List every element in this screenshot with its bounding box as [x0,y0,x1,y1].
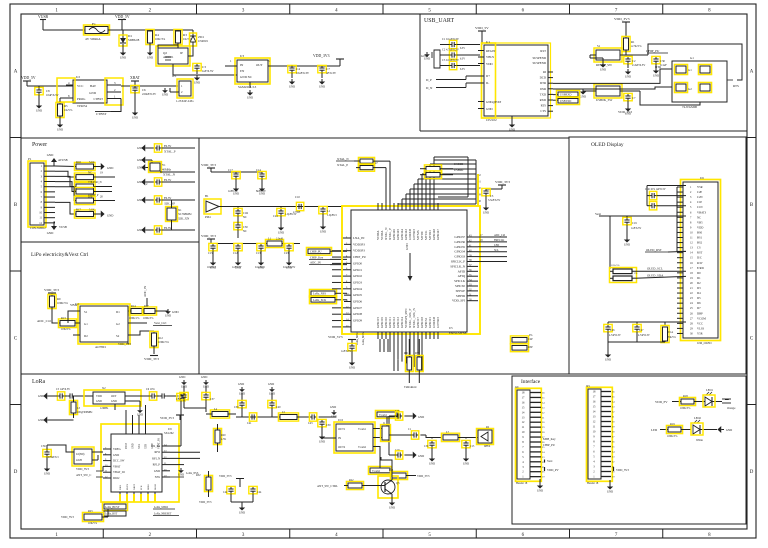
svg-text:GND: GND [107,214,113,218]
svg-text:F1: F1 [92,22,96,26]
svg-text:BS2: BS2 [697,241,703,245]
svg-text:LoRa_NRESET: LoRa_NRESET [154,513,172,516]
svg-text:GND: GND [137,412,143,416]
svg-text:VDD: VDD [697,225,703,229]
svg-text:RFI_P: RFI_P [153,463,161,467]
svg-text:GND: GND [429,461,435,465]
svg-text:VDD_5V: VDD_5V [21,76,36,80]
svg-text:XTAL_N: XTAL_N [337,157,349,161]
svg-text:U6: U6 [700,176,704,180]
svg-text:Vext: Vext [595,212,601,216]
svg-text:VDD_3V3: VDD_3V3 [495,180,510,184]
svg-text:VDD: VDD [486,62,493,66]
svg-text:100@300MHz: 100@300MHz [77,411,93,414]
svg-text:F6.3V: F6.3V [164,178,172,182]
svg-text:C6 10%: C6 10% [146,388,156,391]
svg-text:VBAT3: VBAT3 [697,210,707,214]
svg-text:GND: GND [509,127,515,131]
svg-text:GND: GND [483,210,489,214]
svg-text:C1 0.1uF/6.3V: C1 0.1uF/6.3V [442,37,460,41]
svg-text:LoRa_MOSI: LoRa_MOSI [362,331,365,345]
svg-text:U0TXD: U0TXD [436,317,440,328]
svg-text:NC: NC [243,215,247,219]
svg-text:G1: G1 [84,322,88,326]
svg-text:E/RD: E/RD [697,266,704,270]
svg-text:LoRa_SCK: LoRa_SCK [313,298,327,302]
svg-text:LoRa_BUSY: LoRa_BUSY [105,506,120,509]
svg-text:R33: R33 [415,352,420,355]
svg-text:S2: S2 [116,334,120,338]
svg-text:B1: B1 [205,194,209,198]
svg-text:VDD_3V3: VDD_3V3 [201,234,216,238]
svg-text:GPIO1: GPIO1 [353,268,362,272]
svg-text:L6(ND): L6(ND) [76,453,84,456]
svg-text:ADC_IN: ADC_IN [143,285,147,297]
svg-text:R/W: R/W [697,261,703,265]
svg-text:VDD_3V3: VDD_3V3 [199,500,212,504]
svg-text:GPIO4: GPIO4 [353,287,362,291]
svg-text:GPIO9: GPIO9 [353,319,362,323]
svg-text:GPIO34: GPIO34 [454,250,465,254]
svg-text:MISO: MISO [147,484,150,490]
svg-text:GND: GND [537,488,543,492]
svg-text:8nF6.3V: 8nF6.3V [256,189,267,193]
svg-text:D2: D2 [84,334,88,338]
svg-text:R18: R18 [683,394,688,398]
svg-text:GND: GND [624,242,630,246]
svg-text:GND: GND [154,469,160,473]
svg-text:10uF/6.3V: 10uF/6.3V [46,93,60,97]
svg-text:VDD_3V3: VDD_3V3 [201,163,216,167]
svg-text:XTB: XTB [145,444,148,449]
svg-text:GND: GND [194,80,200,84]
svg-text:Q3: Q3 [396,481,400,485]
svg-text:LoRa_NSS: LoRa_NSS [313,292,326,296]
svg-text:VCC: VCC [697,321,703,325]
svg-text:GND: GND [151,443,154,449]
svg-text:VDD3P3: VDD3P3 [353,242,365,246]
svg-text:GND: GND [113,453,119,457]
svg-text:VBUS: VBUS [486,55,494,59]
svg-text:U2: U2 [76,75,80,79]
svg-text:LoRa_RST: LoRa_RST [105,513,118,516]
svg-text:R13: R13 [61,316,66,320]
svg-text:SGM2212-3.3: SGM2212-3.3 [238,85,257,89]
svg-text:VREG: VREG [113,447,121,451]
svg-text:GND: GND [44,471,50,475]
svg-text:D3: D3 [697,286,701,290]
svg-text:GPIO8: GPIO8 [353,312,362,316]
svg-text:10K/5%: 10K/5% [61,327,71,331]
svg-text:5.1K: 5.1K [89,160,96,164]
svg-text:C10: C10 [295,195,300,199]
svg-text:CHIP_PU: CHIP_PU [543,443,556,447]
svg-text:A: A [14,69,18,74]
svg-text:Power: Power [32,142,47,148]
svg-text:TxRxRoid: TxRxRoid [404,385,417,389]
svg-text:D6: D6 [697,301,701,305]
svg-text:D1: D1 [697,276,701,280]
svg-text:6.3V: 6.3V [460,58,465,61]
svg-text:ANT_SW_CTRL: ANT_SW_CTRL [317,484,338,488]
svg-text:OUT: OUT [111,395,117,398]
svg-text:74-WGM08: 74-WGM08 [682,105,697,109]
svg-text:5.1K: 5.1K [89,208,96,212]
svg-text:DCD: DCD [540,76,547,80]
svg-text:VDD_5V: VDD_5V [115,15,130,19]
svg-text:R32: R32 [196,474,201,477]
svg-text:1nF6.3V: 1nF6.3V [228,189,239,193]
svg-text:VLSS: VLSS [697,326,705,330]
svg-text:GND: GND [162,92,168,96]
svg-text:G1: G1 [690,56,694,60]
svg-text:2.0nH: 2.0nH [276,238,283,241]
svg-text:100K/5%: 100K/5% [57,301,68,305]
svg-text:1uF/6.3V: 1uF/6.3V [202,69,214,73]
svg-text:GND: GND [89,91,97,95]
svg-text:4.7uF/6.3V: 4.7uF/6.3V [638,334,650,337]
svg-text:5%: 5% [634,272,637,275]
svg-text:C19: C19 [632,221,637,225]
svg-text:GND: GND [47,153,54,157]
svg-text:GPIO36: GPIO36 [454,240,465,244]
svg-text:0.96_OLED: 0.96_OLED [697,341,711,345]
svg-text:U10: U10 [338,418,344,422]
svg-text:Vext_Ctrl: Vext_Ctrl [154,321,166,325]
svg-text:LED2: LED2 [694,416,701,420]
svg-text:NSS: NSS [155,475,161,479]
svg-text:D_N: D_N [426,86,433,90]
svg-text:C39: C39 [234,406,239,409]
svg-text:R16: R16 [76,160,81,164]
svg-text:GPIO7: GPIO7 [353,306,362,310]
svg-text:RST: RST [540,49,546,53]
svg-text:CHIP_PU: CHIP_PU [310,250,321,254]
svg-text:GND: GND [607,489,613,493]
svg-text:C23: C23 [284,251,289,255]
svg-text:Vext: Vext [547,459,553,463]
svg-text:GND: GND [319,84,325,88]
svg-text:4.7uF/6.3V: 4.7uF/6.3V [609,334,621,337]
svg-text:DTR: DTR [540,81,547,85]
svg-text:32.768KHz: 32.768KHz [178,212,192,216]
svg-text:C26: C26 [610,329,615,332]
svg-text:JP1: JP1 [172,74,177,78]
svg-text:GND: GND [605,357,611,361]
svg-text:GND: GND [137,158,143,162]
svg-text:GPIO47: GPIO47 [436,229,440,240]
svg-text:U3: U3 [240,54,244,58]
svg-text:AVUSB: AVUSB [58,158,68,162]
svg-text:OUT: OUT [256,63,263,67]
svg-text:C42: C42 [223,491,228,494]
svg-text:Y1: Y1 [162,163,166,167]
svg-text:VDD_3V3: VDD_3V3 [44,288,59,292]
svg-text:1.0pF6.3: 1.0pF6.3 [327,214,337,217]
svg-text:GND: GND [47,231,54,235]
svg-text:RFO: RFO [154,450,160,454]
svg-text:D: D [750,470,754,475]
svg-text:AFID: AFID [458,269,466,273]
svg-text:GND: GND [137,166,143,170]
svg-text:CP2102: CP2102 [486,118,497,122]
svg-text:100K/1%: 100K/1% [129,317,140,320]
svg-text:USBTXD: USBTXD [560,99,571,103]
svg-text:GND: GND [111,400,117,403]
svg-text:GND: GND [57,127,63,131]
svg-text:VDD_3V3: VDD_3V3 [618,110,632,114]
svg-text:C30: C30 [424,445,429,448]
svg-text:C15: C15 [208,251,213,255]
svg-text:220uF/6.3V: 220uF/6.3V [142,92,157,96]
svg-text:R5P: R5P [528,346,533,349]
svg-text:SX1262: SX1262 [164,431,174,435]
svg-text:VB5: VB5 [697,220,703,224]
svg-text:GND: GND [268,382,274,386]
svg-text:VDD_3V3: VDD_3V3 [76,467,89,471]
svg-text:C2 4.7uF/6.3V: C2 4.7uF/6.3V [442,47,460,51]
svg-text:SPICS0: SPICS0 [455,284,465,288]
svg-text:R22: R22 [349,479,354,482]
svg-text:F6.3V: F6.3V [164,196,172,200]
svg-text:C12: C12 [233,251,238,255]
svg-text:4V 500mA: 4V 500mA [85,37,101,41]
svg-text:GPIO6: GPIO6 [353,300,362,304]
svg-text:MOSI: MOSI [154,484,157,490]
svg-text:22nH: 22nH [76,459,82,462]
svg-text:10uF/6.3V: 10uF/6.3V [296,71,310,75]
svg-text:DBP: DBP [697,311,703,315]
svg-text:IN: IN [338,436,341,440]
svg-text:GPIO33: GPIO33 [454,255,465,259]
svg-text:GND: GND [320,229,326,233]
svg-text:VDD_5V: VDD_5V [475,26,489,30]
svg-text:CHIP_PU: CHIP_PU [353,255,367,259]
svg-text:OLED Display: OLED Display [591,142,624,148]
svg-text:1K/5%: 1K/5% [64,108,73,112]
svg-text:IPEX: IPEX [484,444,490,448]
svg-text:10K/3%: 10K/3% [155,37,166,41]
svg-text:LNA_IN: LNA_IN [353,236,365,240]
svg-text:VDD_3V3: VDD_3V3 [160,416,174,420]
svg-text:DIO2: DIO2 [113,476,120,480]
svg-text:GND: GND [165,313,171,317]
svg-text:CTBST: CTBST [94,97,104,101]
svg-text:FRECLK: FRECLK [494,239,504,242]
svg-text:GPIO0: GPIO0 [353,261,362,265]
svg-text:VDD_3V3: VDD_3V3 [417,474,430,478]
svg-text:GND: GND [653,73,659,77]
svg-text:LoRa_MISO: LoRa_MISO [154,506,168,509]
svg-text:SPICLK_P: SPICLK_P [451,260,466,264]
svg-text:GND: GND [349,365,355,369]
svg-text:GND: GND [486,107,493,111]
svg-text:G1: G1 [688,68,692,72]
svg-text:VUSB: VUSB [59,225,67,229]
svg-text:GPIO2: GPIO2 [353,274,362,278]
svg-text:XTAL_P: XTAL_P [164,150,176,154]
svg-text:32K_XP: 32K_XP [164,202,175,206]
svg-text:RST: RST [697,251,703,255]
svg-text:SPIWP: SPIWP [456,289,466,293]
svg-text:P0K/5%: P0K/5% [667,336,677,339]
svg-text:Vcom1: Vcom1 [379,414,388,417]
svg-text:C3: C3 [490,194,494,198]
svg-text:0.1uF6.3: 0.1uF6.3 [255,266,265,269]
svg-text:VCC: VCC [77,84,84,88]
svg-text:D-: D- [486,81,489,85]
svg-text:GND: GND [172,310,179,314]
svg-text:GND: GND [330,405,336,409]
svg-text:BS1: BS1 [697,236,703,240]
svg-text:Y5R: Y5R [697,185,703,189]
svg-text:VDD_3V3: VDD_3V3 [614,17,630,21]
svg-text:ADC_Ctrl: ADC_Ctrl [494,234,506,237]
svg-text:R17: R17 [76,208,81,212]
svg-text:CTS: CTS [540,109,546,113]
svg-text:GPIO37: GPIO37 [454,235,465,239]
svg-text:C2P: C2P [528,338,533,341]
svg-text:MSB_Key: MSB_Key [543,437,556,441]
svg-text:RFI_N: RFI_N [152,456,160,460]
svg-text:G2: G2 [116,322,120,326]
svg-text:10nF6.3: 10nF6.3 [207,266,217,269]
svg-text:BAT: BAT [90,84,96,88]
svg-text:NC: NC [88,171,92,175]
svg-text:VDD_3V3: VDD_3V3 [118,342,131,346]
svg-text:GND: GND [247,95,253,99]
svg-text:C43: C43 [308,422,313,425]
svg-text:4.7K: 4.7K [221,438,226,441]
svg-text:C5 1uF/6.3V: C5 1uF/6.3V [56,388,70,391]
svg-text:NC: NC [243,229,247,233]
svg-text:C40: C40 [276,406,281,409]
svg-text:1.25X2P-LiPo: 1.25X2P-LiPo [176,99,194,103]
svg-text:LED1: LED1 [706,388,713,392]
svg-text:REGIN: REGIN [486,49,496,53]
svg-text:2.7NH: 2.7NH [293,211,300,214]
svg-text:100K/5%: 100K/5% [158,340,169,344]
svg-text:U1A: U1A [668,331,673,334]
svg-text:J2C: J2C [515,386,519,389]
svg-text:C17: C17 [228,168,233,172]
svg-text:C34: C34 [176,398,181,401]
svg-text:VBAT_PA: VBAT_PA [158,438,161,449]
svg-text:1uF/6.3V: 1uF/6.3V [341,350,351,353]
svg-text:D2: D2 [697,281,701,285]
svg-text:XBAT: XBAT [130,76,141,80]
svg-text:RTS: RTS [733,84,739,88]
svg-text:S1: S1 [597,44,601,48]
svg-text:Vcom2: Vcom2 [358,446,367,449]
svg-text:VDD_3V3: VDD_3V3 [61,515,74,519]
svg-text:G2: G2 [688,87,692,91]
svg-text:GND: GND [36,108,42,112]
svg-text:GPIO5: GPIO5 [353,293,362,297]
svg-text:C36: C36 [41,444,46,448]
svg-text:F6.3V: F6.3V [164,144,172,148]
svg-text:VDD_3V3: VDD_3V3 [313,54,330,58]
svg-text:40MHz: 40MHz [162,168,172,172]
svg-text:2.2uF/6.3V: 2.2uF/6.3V [632,63,646,67]
svg-text:A: A [750,69,754,74]
svg-text:DTR: DTR [655,65,662,69]
svg-text:XTAL_P: XTAL_P [337,163,348,167]
svg-text:USB0K_SW: USB0K_SW [596,98,612,102]
svg-text:0.1uF/6.3V: 0.1uF/6.3V [283,266,295,269]
svg-text:LED: LED [494,244,499,247]
svg-text:GND: GND [600,67,606,71]
svg-text:USB_UART: USB_UART [424,18,454,24]
svg-text:S1: S1 [84,310,88,314]
svg-text:uF/6.3V: uF/6.3V [326,71,337,75]
svg-text:100K/5%: 100K/5% [143,317,154,320]
svg-text:6.3V: 6.3V [460,68,465,71]
svg-text:XTA: XTA [138,444,141,449]
svg-text:VDD_3V3: VDD_3V3 [219,474,232,478]
svg-text:SPIHD: SPIHD [456,294,466,298]
svg-text:C7: C7 [632,96,636,100]
svg-text:SDB6.08: SDB6.08 [128,38,140,42]
svg-text:GND: GND [418,415,424,419]
svg-text:RTS: RTS [541,104,547,108]
svg-text:Orange: Orange [727,406,736,410]
svg-text:LiPo electricity&Vext Ctrl: LiPo electricity&Vext Ctrl [31,252,89,258]
svg-text:1uF/6.3V: 1uF/6.3V [631,227,641,230]
svg-text:Header 18: Header 18 [516,482,528,485]
svg-text:ADC_Ctrl: ADC_Ctrl [37,319,51,323]
svg-text:NRST: NRST [133,483,136,490]
svg-text:CTBST: CTBST [96,112,108,116]
svg-text:GND: GND [405,243,409,250]
svg-text:100K/5%: 100K/5% [667,435,678,438]
svg-text:R20: R20 [221,434,226,437]
svg-text:GND: GND [424,56,430,60]
svg-text:OUT2: OUT2 [338,445,346,449]
svg-text:C2N: C2N [697,195,703,199]
svg-text:12MHz: 12MHz [100,407,109,410]
svg-text:C1P: C1P [697,200,702,204]
svg-text:D1: D1 [116,310,120,314]
svg-text:D/C: D/C [697,256,702,260]
svg-text:10%/5%: 10%/5% [611,264,620,267]
svg-text:Vcom2: Vcom2 [372,470,381,473]
svg-text:TP4054: TP4054 [77,104,87,108]
svg-text:GND: GND [389,505,395,509]
svg-text:SUSPEND: SUSPEND [532,61,546,65]
svg-text:VBAT: VBAT [113,464,121,468]
svg-text:1N4819: 1N4819 [198,39,208,43]
svg-text:CHIP_Key: CHIP_Key [310,255,324,259]
svg-text:BUSY: BUSY [126,483,129,490]
svg-text:C37: C37 [210,398,215,401]
svg-text:D7: D7 [697,306,701,310]
svg-text:6.3V: 6.3V [460,47,465,50]
svg-text:VDD_3V3: VDD_3V3 [328,335,343,339]
svg-text:VDD_SPI: VDD_SPI [452,299,465,303]
svg-text:GND: GND [289,84,295,88]
svg-text:10K/5%: 10K/5% [88,522,98,525]
svg-text:GND: GND [201,375,207,379]
svg-text:R19: R19 [670,422,675,426]
svg-text:D5: D5 [697,296,701,300]
svg-text:778.9%D_N: 778.9%D_N [88,181,102,184]
svg-text:CS: CS [697,246,701,250]
svg-text:C44: C44 [257,491,262,494]
svg-text:C1R 10% 1uF/6.3V: C1R 10% 1uF/6.3V [645,188,666,191]
svg-text:C13: C13 [256,251,261,255]
svg-text:100K/5%: 100K/5% [680,407,691,410]
